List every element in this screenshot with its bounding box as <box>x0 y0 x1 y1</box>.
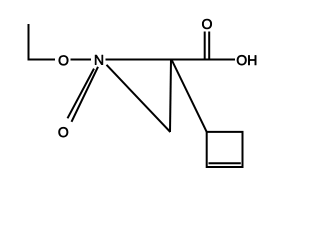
wire N=O double bond line 2 <box>68 69 95 119</box>
node OH hydroxyl <box>237 55 256 65</box>
node O carbonyl oxygen <box>202 19 212 29</box>
node O nitroso oxygen <box>59 127 69 137</box>
wire ethyl CH3-CH2 bond <box>28 24 30 60</box>
wire C-cyclobutenyl diagonal bond <box>172 60 207 132</box>
wire N=O double bond line 1 <box>72 67 99 122</box>
wire C=O double bond line 2 <box>208 32 210 60</box>
wire CH2-O bond <box>28 59 56 61</box>
wire cyclobutene ring <box>207 132 243 167</box>
wire N-C-C(=O)-OH horizontal bond <box>106 59 236 61</box>
node O ether oxygen <box>59 55 69 65</box>
wire C-C ring vertical bond <box>170 60 171 133</box>
wire cyclobutene double bond inner line <box>209 162 241 164</box>
wire N-C ring diagonal bond <box>107 65 171 132</box>
wire O-N bond <box>71 59 92 61</box>
wire C=O double bond line 1 <box>204 32 206 60</box>
node N nitrogen <box>95 55 103 65</box>
